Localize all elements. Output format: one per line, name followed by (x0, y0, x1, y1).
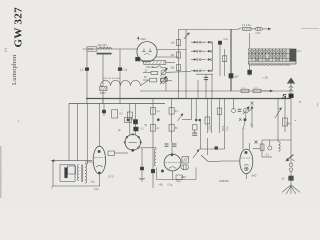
svg-text:+ 25: + 25 (262, 76, 268, 80)
svg-text:5000: 5000 (223, 125, 225, 131)
svg-text:0,1μ: 0,1μ (227, 126, 229, 131)
svg-text:£42: £42 (252, 174, 257, 178)
svg-text:100-250: 100-250 (146, 67, 155, 69)
svg-text:0,1 0,2A: 0,1 0,2A (242, 24, 251, 27)
svg-text:+5Δ: +5Δ (159, 184, 164, 187)
svg-text:0,25: 0,25 (256, 33, 261, 35)
svg-text:150 750 750 440: 150 750 750 440 (103, 78, 120, 80)
svg-text:Lumophon: Lumophon (11, 54, 18, 85)
svg-text:5000: 5000 (100, 91, 106, 95)
svg-text:S: S (282, 93, 287, 100)
svg-text:110 220: 110 220 (98, 43, 108, 47)
svg-text:Φ110: Φ110 (88, 48, 94, 51)
svg-text:0,1μ: 0,1μ (94, 188, 99, 191)
svg-text:0,1μ: 0,1μ (176, 180, 181, 183)
svg-text:0,1μ: 0,1μ (123, 69, 128, 72)
svg-text:8μF: 8μF (235, 77, 240, 79)
svg-text:AZ2: AZ2 (141, 37, 147, 41)
svg-text:0,1μ: 0,1μ (168, 184, 173, 187)
svg-text:0,1μF: 0,1μF (161, 76, 167, 78)
svg-text:0,05: 0,05 (286, 124, 291, 126)
svg-text:£30: £30 (181, 175, 186, 179)
svg-text:≠0μ: ≠0μ (91, 181, 96, 184)
svg-text:0,05μ: 0,05μ (210, 125, 212, 131)
svg-text:0,1μ: 0,1μ (224, 39, 229, 41)
svg-text:1M9/3W: 1M9/3W (219, 179, 229, 183)
svg-text:573: 573 (109, 175, 114, 179)
svg-text:1kΩ: 1kΩ (171, 43, 175, 45)
svg-text:GW 327: GW 327 (13, 7, 25, 48)
